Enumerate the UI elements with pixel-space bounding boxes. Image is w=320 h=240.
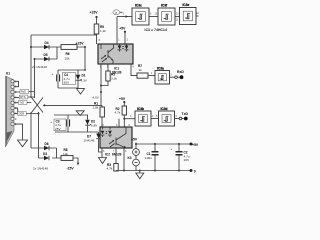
svg-text:IC3b: IC3b	[137, 107, 144, 111]
svg-text:0: 0	[194, 170, 196, 174]
svg-text:2x 1N4148: 2x 1N4148	[32, 65, 47, 69]
svg-text:DSR: DSR	[19, 112, 25, 116]
svg-text:TxD: TxD	[19, 101, 24, 105]
svg-text:-: -	[111, 11, 112, 15]
svg-text:100n: 100n	[145, 156, 152, 160]
svg-text:R6: R6	[66, 52, 70, 56]
svg-text:35V: 35V	[64, 80, 70, 84]
svg-text:IC3c: IC3c	[135, 4, 142, 8]
svg-text:RTS: RTS	[20, 95, 25, 99]
svg-text:10k: 10k	[63, 152, 68, 156]
svg-text:+: +	[50, 120, 52, 124]
svg-text:25V: 25V	[55, 127, 61, 131]
svg-text:16V: 16V	[184, 158, 190, 162]
svg-text:15k: 15k	[65, 57, 70, 61]
svg-text:+5V: +5V	[131, 137, 138, 141]
svg-text:+: +	[171, 147, 173, 151]
svg-text:+5V: +5V	[192, 143, 199, 147]
svg-text:+5V: +5V	[119, 97, 126, 101]
svg-text:3,3k: 3,3k	[111, 77, 117, 81]
svg-text:D4: D4	[45, 41, 49, 45]
svg-text:+15V: +15V	[90, 11, 99, 15]
svg-text:TxD: TxD	[182, 112, 189, 116]
svg-text:D3: D3	[43, 152, 47, 156]
svg-text:4,7k: 4,7k	[107, 167, 113, 171]
svg-text:IC2: IC2	[105, 152, 110, 156]
svg-text:IC3e: IC3e	[183, 3, 190, 7]
svg-text:RxD: RxD	[21, 90, 26, 94]
svg-text:6N139: 6N139	[112, 152, 122, 156]
svg-text:1,2k: 1,2k	[100, 29, 106, 33]
svg-text:IC3f: IC3f	[161, 4, 168, 8]
svg-text:D6: D6	[45, 142, 49, 146]
svg-text:-15V: -15V	[67, 167, 75, 171]
svg-text:1,8k: 1,8k	[93, 106, 99, 110]
svg-text:D5: D5	[44, 53, 48, 57]
svg-text:-4,6V: -4,6V	[92, 96, 100, 100]
svg-text:IC3 = 74HC14: IC3 = 74HC14	[145, 28, 167, 32]
svg-text:+: +	[52, 72, 54, 76]
svg-text:1N4148: 1N4148	[84, 139, 95, 143]
svg-text:IC3d: IC3d	[161, 107, 168, 111]
svg-text:+15V: +15V	[76, 41, 85, 45]
svg-text:6,8V: 6,8V	[91, 124, 98, 128]
svg-text:+5V: +5V	[119, 27, 126, 31]
svg-text:D1: D1	[82, 74, 86, 78]
svg-text:1k: 1k	[139, 68, 143, 72]
svg-text:4,7k: 4,7k	[115, 111, 121, 115]
svg-text:RxD: RxD	[177, 70, 184, 74]
svg-text:4,3V: 4,3V	[81, 79, 88, 83]
svg-text:2x 1N4148: 2x 1N4148	[33, 167, 48, 171]
svg-text:K1: K1	[6, 72, 10, 76]
svg-text:IC3a: IC3a	[157, 67, 164, 71]
svg-text:K3: K3	[128, 156, 132, 160]
